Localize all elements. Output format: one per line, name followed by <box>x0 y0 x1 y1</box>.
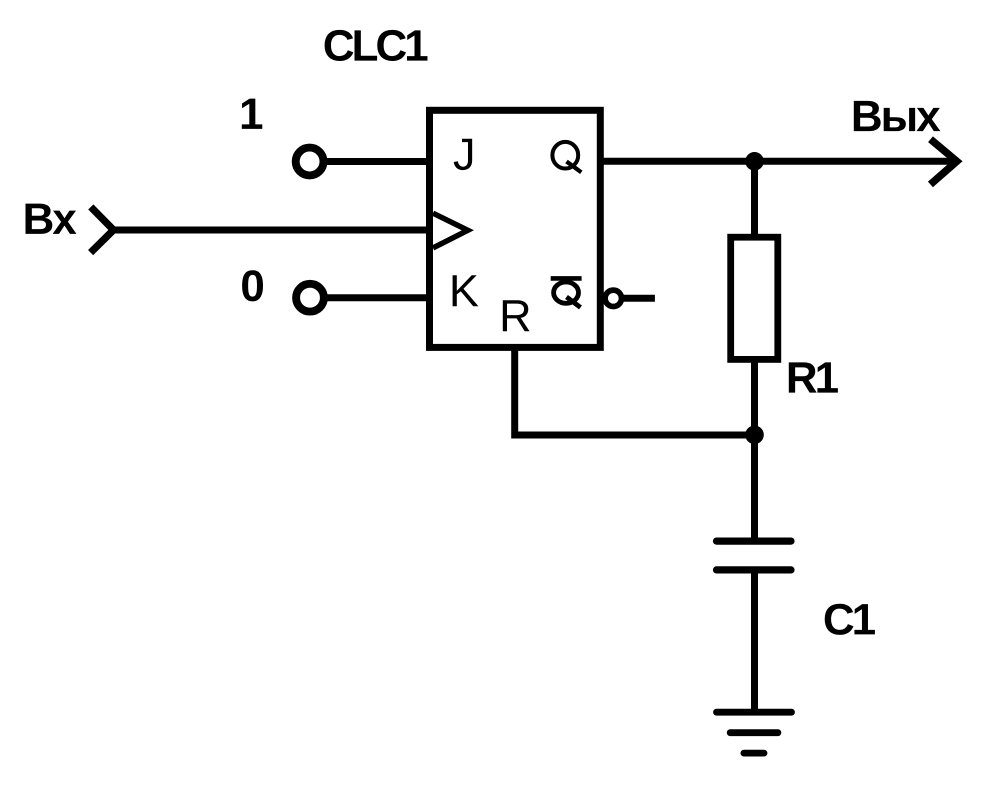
wire node to resistor top <box>751 161 758 240</box>
wire clock input <box>114 227 430 234</box>
label R1 <box>789 362 838 392</box>
label 0 <box>242 270 263 301</box>
pin label Qbar <box>554 282 581 307</box>
Qbar inversion bubble <box>605 290 621 306</box>
wire K input <box>325 294 429 301</box>
clock edge triangle <box>433 213 468 248</box>
resistor R1 <box>731 237 778 359</box>
pin label R <box>503 300 530 331</box>
ground bar 1 <box>717 709 792 716</box>
flip-flop box CLC1 <box>430 110 601 347</box>
capacitor C1 bottom plate <box>717 566 792 573</box>
label 1 <box>242 99 262 129</box>
input terminal circle 0 <box>296 284 324 312</box>
ground bar 3 <box>744 750 764 757</box>
wire Qbar stub <box>622 295 655 302</box>
input terminal circle 1 <box>296 148 324 176</box>
capacitor C1 top plate <box>717 537 792 544</box>
wire R pin down and right <box>515 347 755 435</box>
pin label J <box>454 139 472 170</box>
node dot R/C junction <box>745 426 764 445</box>
input arrow Вх <box>91 207 114 253</box>
pin label K <box>453 275 479 306</box>
wire node to capacitor <box>751 435 758 541</box>
wire J input <box>325 158 429 165</box>
pin label Q <box>552 142 581 172</box>
label Вх <box>26 204 77 234</box>
label Вых <box>854 101 941 131</box>
output arrow Вых <box>930 139 956 184</box>
ground bar 2 <box>730 729 778 736</box>
wire resistor bottom to node <box>751 359 758 435</box>
label CLC1 <box>325 30 428 61</box>
wire capacitor to ground <box>751 570 758 712</box>
wire Q output <box>600 158 956 165</box>
label C1 <box>825 604 875 635</box>
node dot on output wire <box>745 152 764 171</box>
